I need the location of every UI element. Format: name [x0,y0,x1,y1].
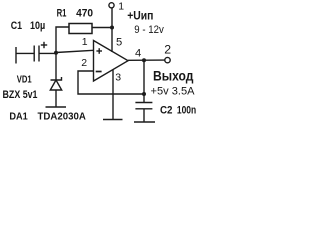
svg-text:+5v 3.5A: +5v 3.5A [151,85,196,97]
wire output pin 4 [128,59,165,61]
svg-text:100n: 100n [177,105,197,117]
svg-text:Выход: Выход [153,69,193,85]
wire C2 top lead [143,94,145,103]
op-amp + input sign [96,50,102,52]
zener diode VD1 triangle [50,80,61,90]
op-amp − input sign [96,71,102,73]
wire node A to pin 1 input [56,50,94,52]
capacitor C1 plate 2 [38,46,40,62]
capacitor C2 plate bottom [135,108,152,110]
svg-text:C2: C2 [160,105,173,117]
terminal 1 circle [109,3,114,8]
svg-text:10µ: 10µ [30,20,45,32]
resistor R1 [69,24,92,34]
capacitor C1 plate 1 [33,46,35,62]
svg-text:C1: C1 [11,20,22,32]
ground bar pin 3 [103,119,123,121]
svg-text:2: 2 [164,43,171,57]
polarity + of C1 [41,44,47,46]
svg-text:R1: R1 [57,8,67,20]
wire pin 2 inverting input [78,71,144,94]
svg-text:TDA2030A: TDA2030A [38,111,87,123]
junction node A [54,51,58,55]
zener diode VD1 cathode bar [51,77,62,80]
wire C1 to node A [39,52,56,54]
wire C1 left lead [16,52,34,54]
svg-text:1: 1 [82,36,88,48]
svg-text:3: 3 [115,71,121,83]
wire terminal 1 down to supply node [111,8,113,28]
svg-text:2: 2 [81,57,87,69]
svg-text:9 - 12v: 9 - 12v [134,24,164,36]
svg-text:4: 4 [135,48,141,60]
wire node A to R1 left (vertical riser) [56,27,69,53]
svg-text:DA1: DA1 [9,111,28,123]
svg-text:+Uип: +Uип [127,9,153,23]
junction output node [142,58,146,62]
wire C2 bottom lead [143,109,145,122]
svg-text:470: 470 [76,8,93,20]
ground bar C2 [134,121,155,123]
wire zener top lead [55,53,57,80]
junction supply node [110,26,114,30]
wire output down to feedback/C2 [143,60,145,94]
svg-text:1: 1 [118,0,124,12]
wire zener bottom lead [55,90,57,107]
svg-text:5: 5 [116,37,122,49]
wire pin 5 supply [111,28,113,53]
terminal 2 circle [165,57,170,62]
svg-text:VD1: VD1 [17,75,32,86]
op-amp DA1 triangle [94,41,129,82]
wire pin 3 down [112,70,114,120]
wire R1 right to supply node [92,27,112,29]
junction feedback node [142,92,146,96]
C1 left terminal bar [15,47,17,64]
capacitor C2 plate top [135,102,152,104]
svg-text:BZX 5v1: BZX 5v1 [3,89,38,101]
ground bar VD1 [46,106,67,108]
